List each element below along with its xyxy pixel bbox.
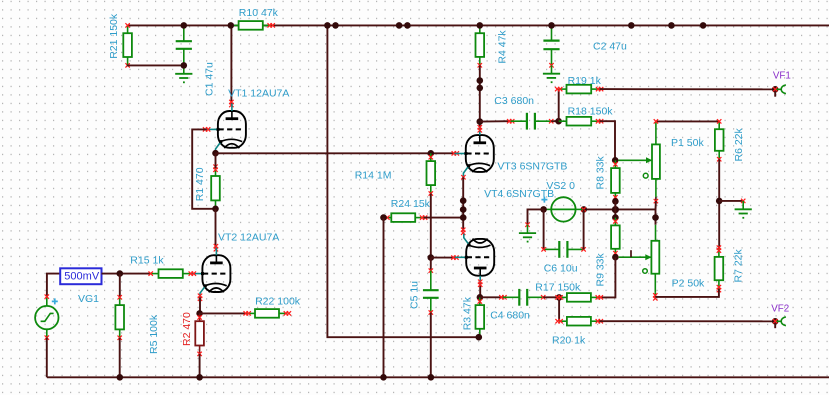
wire VT4 anode down — [479, 283, 481, 297]
svg-text:P1 50k: P1 50k — [671, 137, 704, 149]
svg-text:R10 47k: R10 47k — [239, 7, 279, 19]
svg-text:VT1 12AU7A: VT1 12AU7A — [228, 87, 289, 99]
svg-text:R17 150k: R17 150k — [535, 281, 581, 293]
svg-text:R6 22k: R6 22k — [733, 127, 745, 161]
svg-text:R5 100k: R5 100k — [148, 314, 160, 354]
wire VS2 node — [584, 208, 656, 210]
joint dots top rail — [332, 22, 339, 29]
svg-text:C5 1u: C5 1u — [409, 281, 421, 309]
wire VG1 top — [47, 274, 60, 297]
resistor R14 — [430, 153, 432, 161]
capacitor C5 — [430, 271, 432, 291]
wire R14 to C5 junction — [430, 194, 432, 258]
svg-text:C3 680n: C3 680n — [494, 95, 534, 107]
wire junction up to R19 — [558, 89, 560, 121]
junction C4 R17 R20 — [556, 294, 563, 301]
junction VT4 anode C4 R3 — [477, 294, 484, 301]
wire R1 bottom to VT2 anode — [215, 209, 217, 248]
svg-text:R8 33k: R8 33k — [595, 155, 607, 189]
wire VT2 cathode down — [199, 297, 201, 313]
capacitor C3 — [511, 120, 527, 122]
wire VG1 bottom to rail — [46, 338, 48, 378]
svg-text:VT3 6SN7GTB: VT3 6SN7GTB — [497, 161, 567, 173]
svg-text:R15 1k: R15 1k — [130, 255, 164, 267]
wire top B+ rail — [127, 24, 829, 26]
junction C2 rail — [548, 22, 555, 29]
ground at C2 — [551, 65, 553, 73]
pin C3 right — [549, 119, 553, 123]
pin C4 right — [541, 295, 545, 299]
potentiometer P1 — [655, 121, 657, 144]
resistor R17 — [559, 296, 567, 298]
pin C5 bottom — [429, 310, 433, 314]
source value box 500mV — [60, 268, 101, 284]
wire R6 bottom to R7 top — [718, 159, 720, 249]
svg-text:VS2 0: VS2 0 — [546, 180, 575, 192]
resistor R24 — [384, 217, 392, 219]
svg-text:R18 150k: R18 150k — [568, 106, 614, 118]
wire ground tap — [719, 200, 743, 202]
wire R4 to VT3 anode — [479, 65, 481, 129]
wire C6 left riser — [543, 209, 545, 249]
junction C1 top — [181, 22, 188, 29]
source VS2 — [551, 197, 575, 221]
wire R24 right to cathode column — [424, 217, 463, 219]
junction R1 bottom — [212, 206, 219, 213]
resistor R9 — [614, 218, 616, 226]
pin VT2 cathode — [198, 294, 202, 298]
junction R4 rail — [477, 22, 484, 29]
wire source to R15 — [102, 273, 151, 275]
pin VT3 cathode — [461, 175, 465, 179]
svg-text:P2 50k: P2 50k — [672, 277, 705, 289]
svg-text:R22 100k: R22 100k — [255, 295, 301, 307]
voltage source VG1 — [35, 306, 58, 329]
svg-text:VG1: VG1 — [78, 293, 99, 305]
junction R9 top — [612, 214, 619, 221]
wire R5 top — [119, 274, 121, 298]
junction R9 bottom wiper — [612, 254, 619, 261]
junction VS2 left — [540, 206, 547, 213]
wire VT1 cathode to R1 — [215, 153, 217, 168]
wire P1 bottom to P2 top — [655, 201, 657, 225]
svg-text:VT2 12AU7A: VT2 12AU7A — [218, 232, 279, 244]
svg-text:R24 15k: R24 15k — [391, 198, 431, 210]
junction C3 R18 R19 — [555, 118, 562, 125]
junction R3 bottom — [476, 334, 483, 341]
svg-text:500mV: 500mV — [64, 271, 100, 283]
wire VS2 left to ground — [528, 209, 544, 224]
resistor R6 — [718, 121, 720, 129]
terminal VF1 — [772, 86, 779, 93]
resistor R3 — [479, 297, 481, 305]
svg-text:C2 47u: C2 47u — [593, 41, 627, 53]
capacitor C1 — [183, 25, 185, 41]
junction VT3 anode C3 — [477, 118, 484, 125]
junction R14 top — [428, 150, 435, 157]
resistor R2 — [199, 313, 201, 321]
junction P1 P2 link — [652, 214, 659, 221]
svg-text:R9 33k: R9 33k — [595, 252, 607, 286]
wire P2 bottom to R7 bottom — [655, 289, 719, 297]
wire R5 bottom to rail — [119, 338, 121, 378]
svg-text:C6 10u: C6 10u — [544, 263, 578, 275]
wire C6 right riser — [583, 209, 585, 249]
wire cathode to R22 — [200, 312, 248, 314]
resistor R20 — [559, 320, 567, 322]
pin C2 bottom — [549, 63, 553, 67]
junction VT2 cathode R2 R22 — [196, 310, 203, 317]
resistor R7 — [718, 249, 720, 257]
wire C5 bottom to rail — [430, 313, 432, 378]
junction R5 rail — [117, 374, 124, 381]
wire junction down to R20 — [558, 297, 560, 321]
junction R24 rail — [380, 374, 387, 381]
wire P1 top to R6 top — [656, 120, 719, 122]
junction line A rail — [324, 22, 331, 29]
triode VT2 — [191, 248, 230, 298]
junction C5 rail — [428, 374, 435, 381]
svg-text:VF2: VF2 — [771, 303, 789, 314]
wire VT1 grid feedback loop — [192, 129, 215, 208]
wire R9 bottom to R17 — [599, 257, 615, 297]
svg-text:R1 470: R1 470 — [194, 167, 206, 201]
svg-text:VF1: VF1 — [773, 71, 791, 82]
triode VT1 — [207, 104, 246, 154]
capacitor C4 — [503, 296, 519, 298]
junction C1 bottom — [181, 62, 188, 69]
wire VT3 cathode to VT4 cathode — [462, 177, 464, 231]
wire VT4 anode to C4 — [480, 296, 503, 298]
wire R18 right to R8 top — [600, 121, 615, 160]
resistor R1 — [215, 168, 217, 176]
wire C5 top stub — [430, 258, 432, 271]
junction R2 rail — [196, 374, 203, 381]
resistor R19 — [559, 88, 567, 90]
svg-text:C4 680n: C4 680n — [490, 310, 530, 322]
svg-text:R4 47k: R4 47k — [497, 30, 509, 64]
junction VT1 cathode — [212, 150, 219, 157]
wire R19 to VF1 — [600, 88, 776, 90]
wire VT1 cathode to VT3 grid — [216, 152, 456, 154]
wire R20 to VF2 — [599, 320, 775, 322]
junction C5 top VT4 grid — [428, 254, 435, 261]
wire VT3 anode to C3 — [480, 120, 511, 122]
resistor R4 — [479, 25, 481, 33]
svg-text:C1 47u: C1 47u — [204, 62, 216, 96]
resistor R21 — [127, 25, 129, 33]
svg-text:R19 1k: R19 1k — [568, 75, 602, 87]
pin VT1 grid — [203, 127, 207, 131]
svg-text:R2 470: R2 470 — [181, 312, 193, 346]
svg-text:R7 22k: R7 22k — [733, 248, 745, 282]
capacitor C2 — [551, 25, 553, 40]
svg-text:R20 1k: R20 1k — [552, 335, 586, 347]
terminal VF2 — [772, 318, 779, 325]
wire R8 R9 link — [614, 201, 616, 217]
junction R5 top tap — [117, 270, 124, 277]
wire C3 to R18 — [551, 120, 558, 122]
resistor R8 — [614, 160, 616, 168]
ground at R6 R7 — [742, 201, 744, 209]
resistor R15 — [151, 273, 159, 275]
junction R8 top wiper — [612, 157, 619, 164]
wire R24 left to rail — [383, 218, 385, 378]
junction R6 ground tap — [716, 198, 723, 205]
wire R2 bottom to rail — [199, 354, 201, 377]
wire C4 to R17 — [543, 296, 559, 298]
potentiometer P2 — [655, 225, 657, 241]
resistor R5 — [119, 297, 121, 305]
wire C5 junction to VT4 grid — [431, 257, 455, 259]
triode VT4 — [455, 234, 494, 284]
resistor R10 — [231, 24, 239, 26]
wire bottom ground rail — [47, 376, 829, 378]
resistor R22 — [247, 312, 255, 314]
ground at C1 — [183, 65, 185, 73]
capacitor C6 — [544, 248, 560, 250]
wire B+ drop to R3 — [327, 25, 478, 337]
junction VS2 node — [612, 206, 619, 213]
junction R8 bottom — [612, 198, 619, 205]
svg-text:R14 1M: R14 1M — [355, 170, 392, 182]
junction VT1 anode rail — [228, 22, 235, 29]
resistor R18 — [559, 120, 567, 122]
svg-text:R21 150k: R21 150k — [108, 13, 120, 59]
wire VT1 anode to rail — [230, 25, 232, 103]
triode VT3 — [454, 128, 493, 178]
wire R21 bottom to C1 bottom — [127, 64, 184, 66]
junction R24 left — [380, 214, 387, 221]
svg-text:R3 47k: R3 47k — [462, 296, 474, 330]
ground at VS2 — [527, 225, 529, 233]
